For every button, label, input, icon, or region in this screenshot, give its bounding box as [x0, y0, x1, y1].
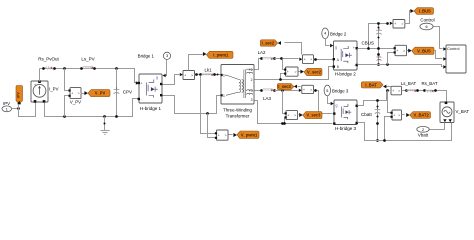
goto tag I_BAT (flipped) — [387, 86, 391, 88]
current sensor I_BUS — [390, 22, 393, 25]
svg-text:5: 5 — [326, 89, 328, 93]
voltage sensor V_BAT2 — [388, 91, 391, 113]
svg-text:+: + — [353, 46, 355, 50]
svg-text:3: 3 — [251, 98, 253, 102]
goto tag V_PV — [88, 90, 110, 97]
wire +3 to LA3 line — [255, 90, 261, 92]
svg-text:>: > — [310, 88, 312, 92]
svg-text:-: - — [354, 64, 355, 68]
svg-text:>: > — [310, 58, 312, 62]
H-bridge 2 block — [334, 41, 358, 70]
svg-text:1: 1 — [6, 107, 8, 111]
wire I2 out to H-bridge2 A — [314, 59, 333, 61]
svg-text:+: + — [304, 58, 306, 62]
svg-text:I_BAT: I_BAT — [365, 82, 377, 87]
resistor Rs_PvOut — [42, 67, 45, 70]
wire Bridge1 to g port — [166, 60, 167, 76]
voltage sensor V_PV — [63, 67, 66, 70]
svg-text:I_pwm1: I_pwm1 — [213, 52, 229, 57]
svg-text:Control: Control — [420, 18, 434, 23]
svg-text:g: g — [336, 104, 338, 108]
wire node to IPV tag — [18, 105, 20, 109]
svg-text:+: + — [303, 88, 305, 92]
svg-text:Bridge 2: Bridge 2 — [330, 31, 347, 36]
svg-text:>: > — [403, 49, 405, 53]
goto tag V_sec3 — [298, 114, 299, 116]
bus + rail — [358, 48, 394, 50]
svg-text:+: + — [287, 113, 289, 117]
svg-text:CPV: CPV — [123, 90, 132, 95]
wire +2 to LA2 line — [255, 59, 261, 70]
wire to I_BUS line — [369, 24, 389, 49]
svg-text:Bridge 1: Bridge 1 — [138, 53, 155, 58]
Control block — [446, 45, 466, 73]
voltage sensor V2 — [283, 59, 285, 70]
wire Bridge3 to g — [328, 96, 331, 104]
goto tag V_BAT2 — [402, 114, 405, 116]
svg-text:IPV: IPV — [17, 92, 21, 98]
svg-text:V_PV: V_PV — [95, 91, 106, 96]
current sensor I_BAT — [391, 86, 402, 95]
svg-text:>: > — [191, 73, 193, 77]
inductor Ls_PV — [80, 67, 83, 70]
svg-text:1+: 1+ — [223, 73, 227, 77]
svg-text:Three-Winding: Three-Winding — [223, 107, 252, 112]
voltage source V_BAT — [440, 102, 454, 123]
svg-text:Bridge 3: Bridge 3 — [332, 88, 349, 93]
goto tag V_BUS — [407, 50, 409, 52]
svg-text:I_sec3: I_sec3 — [278, 84, 291, 89]
inport Vbatt (2) — [417, 126, 429, 132]
current sensor I3 — [299, 89, 302, 92]
inductor LA2 — [260, 57, 263, 60]
wire I3 out to H-bridge3 A — [314, 91, 333, 114]
svg-text:Ls_BAT: Ls_BAT — [401, 81, 417, 86]
current sensor I1 — [163, 75, 180, 85]
svg-text:>: > — [295, 70, 297, 74]
wire V_BUS lower input — [388, 53, 394, 65]
svg-text:>: > — [398, 89, 400, 93]
svg-text:I_PV: I_PV — [49, 87, 59, 92]
goto tag IPV (rotated) — [16, 86, 23, 104]
inductor Lk1 — [195, 74, 221, 76]
H-bridge 1 block — [139, 74, 162, 103]
svg-text:+2: +2 — [249, 68, 253, 72]
svg-text:Transformer: Transformer — [226, 114, 250, 119]
svg-text:V_PV: V_PV — [70, 100, 81, 105]
battery - rail — [358, 123, 452, 141]
svg-text:V_sec2: V_sec2 — [307, 70, 322, 75]
svg-text:I_sec2: I_sec2 — [262, 41, 275, 46]
svg-text:B: B — [337, 65, 339, 69]
svg-text:H-bridge 1: H-bridge 1 — [140, 106, 162, 111]
svg-text:V_BAT2: V_BAT2 — [413, 113, 429, 118]
H-bridge 3 block — [334, 100, 357, 125]
wire 3 return to H-bridge3 B — [255, 101, 333, 124]
wire H-bridge3 + to battery rail — [358, 91, 390, 106]
svg-text:-: - — [141, 97, 142, 101]
svg-text:6: 6 — [425, 25, 427, 29]
wire source plus to top bus — [39, 69, 41, 82]
svg-text:3: 3 — [166, 54, 168, 58]
svg-text:+: + — [218, 133, 220, 137]
svg-text:+: + — [393, 113, 395, 117]
current sensor I2 — [299, 58, 302, 61]
svg-text:>: > — [78, 91, 80, 95]
svg-text:Ls_PV: Ls_PV — [81, 57, 94, 62]
svg-text:>: > — [294, 113, 296, 117]
capacitor CPV — [115, 67, 118, 70]
svg-text:2: 2 — [251, 78, 253, 82]
svg-text:Rs_BAT: Rs_BAT — [421, 81, 437, 86]
svg-text:V_BAT: V_BAT — [456, 109, 470, 114]
svg-text:>: > — [401, 22, 403, 26]
svg-text:+: + — [392, 89, 394, 93]
wire Vbatt to source — [430, 123, 445, 130]
svg-text:Control: Control — [447, 46, 460, 51]
voltage sensor V_BUS — [395, 45, 407, 55]
top bus wire — [40, 69, 137, 83]
wire source minus to bottom bus — [45, 99, 139, 117]
controlled current source I_PV — [31, 81, 48, 102]
goto tag I_sec2 (flipped) — [285, 43, 302, 55]
svg-text:4: 4 — [324, 32, 326, 36]
svg-text:V_BUS: V_BUS — [417, 48, 431, 53]
wire 6 to Control block — [434, 27, 443, 49]
wire V_BUS to Control — [435, 51, 443, 59]
svg-text:g: g — [335, 46, 337, 50]
three-winding transformer — [221, 65, 254, 105]
wire IPV to node — [12, 108, 19, 110]
svg-text:Rs_PvOut: Rs_PvOut — [38, 57, 59, 62]
goto tag I_BUS — [405, 11, 411, 24]
svg-text:+: + — [394, 22, 396, 26]
svg-text:1: 1 — [223, 94, 225, 98]
svg-text:+: + — [287, 70, 289, 74]
svg-text:g: g — [156, 76, 158, 80]
svg-text:+: + — [184, 73, 186, 77]
svg-text:IPV: IPV — [3, 101, 10, 106]
svg-text:LA2: LA2 — [258, 50, 266, 55]
svg-text:+: + — [141, 82, 143, 86]
voltage sensor V1 — [201, 75, 216, 134]
bus - rail to Control — [358, 65, 443, 67]
svg-text:Vbatt: Vbatt — [418, 132, 429, 137]
inductor LA3 — [260, 89, 263, 92]
voltage sensor V3 — [283, 91, 287, 114]
wire LA2 to sensor — [275, 58, 299, 60]
goto tag I_pwm1 — [189, 55, 203, 71]
svg-text:V_pwm1: V_pwm1 — [241, 132, 258, 137]
svg-text:I_BUS: I_BUS — [419, 9, 431, 14]
svg-text:V_sec3: V_sec3 — [306, 113, 321, 118]
goto tag V_sec2 — [299, 71, 301, 73]
svg-text:Cbatt: Cbatt — [361, 112, 373, 117]
svg-text:+3: +3 — [249, 89, 253, 93]
svg-text:H-bridge 3: H-bridge 3 — [335, 126, 357, 131]
goto tag I_sec3 (flipped) — [298, 86, 301, 88]
svg-text:2: 2 — [422, 128, 424, 132]
svg-text:H-bridge 2: H-bridge 2 — [335, 71, 357, 76]
svg-text:+: + — [34, 83, 36, 87]
svg-text:>: > — [225, 133, 227, 137]
capacitor Cbatt — [377, 101, 379, 141]
svg-text:LA3: LA3 — [263, 96, 271, 101]
goto tag V_pwm1 — [229, 134, 233, 136]
wire V_PV to tag — [81, 93, 85, 95]
svg-text:+: + — [396, 49, 398, 53]
wire IPV signal to source input — [19, 103, 36, 117]
wire 2 return to H-bridge2 B — [255, 67, 333, 80]
wire LA3 to sensor — [275, 90, 299, 92]
ground — [103, 115, 106, 118]
wire Bridge2 to g — [326, 39, 330, 46]
svg-text:+: + — [71, 91, 73, 95]
svg-text:Lk1: Lk1 — [204, 67, 212, 72]
svg-text:CBUS: CBUS — [362, 40, 375, 45]
capacitor CBUS — [378, 24, 380, 65]
inport Bridge 2 (4) — [322, 28, 329, 39]
battery line with Ls_BAT Rs_BAT — [402, 91, 447, 103]
svg-text:>: > — [398, 113, 400, 117]
wire H-bridge1 B to transformer — [163, 96, 221, 114]
inport Bridge 3 (5) — [324, 85, 330, 96]
